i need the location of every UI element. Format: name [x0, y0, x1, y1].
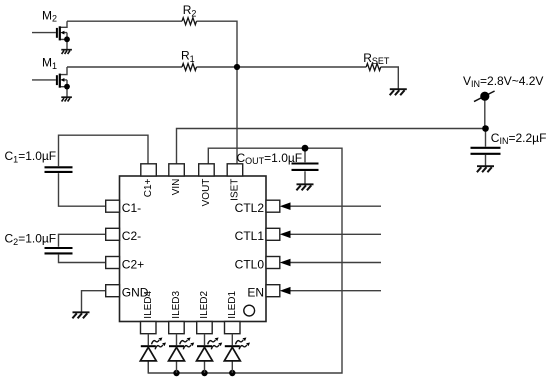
svg-text:M2: M2 — [42, 8, 57, 23]
svg-text:ILED3: ILED3 — [171, 290, 182, 318]
svg-text:C2-: C2- — [122, 229, 141, 243]
svg-text:VIN=2.8V~4.2V: VIN=2.8V~4.2V — [463, 74, 543, 89]
svg-text:C1+: C1+ — [143, 178, 154, 197]
svg-text:ILED2: ILED2 — [199, 290, 210, 318]
svg-text:CTL2: CTL2 — [235, 201, 265, 215]
svg-text:VIN: VIN — [171, 179, 182, 196]
svg-text:COUT=1.0µF: COUT=1.0µF — [237, 151, 303, 166]
svg-text:EN: EN — [247, 286, 264, 300]
svg-text:CIN=2.2µF: CIN=2.2µF — [491, 131, 547, 146]
svg-text:C1=1.0µF: C1=1.0µF — [5, 149, 57, 165]
svg-text:M1: M1 — [42, 56, 57, 71]
svg-text:ILED4: ILED4 — [143, 290, 154, 318]
svg-text:CTL1: CTL1 — [235, 229, 265, 243]
svg-text:C2+: C2+ — [122, 257, 144, 271]
svg-text:RSET: RSET — [363, 51, 390, 66]
svg-text:CTL0: CTL0 — [235, 257, 265, 271]
svg-text:ILED1: ILED1 — [227, 290, 238, 318]
svg-text:ISET: ISET — [230, 179, 241, 201]
svg-text:R1: R1 — [181, 48, 195, 64]
svg-text:VOUT: VOUT — [201, 179, 212, 207]
svg-text:C1-: C1- — [122, 201, 141, 215]
svg-text:C2=1.0µF: C2=1.0µF — [5, 231, 57, 247]
svg-text:R2: R2 — [183, 3, 197, 19]
